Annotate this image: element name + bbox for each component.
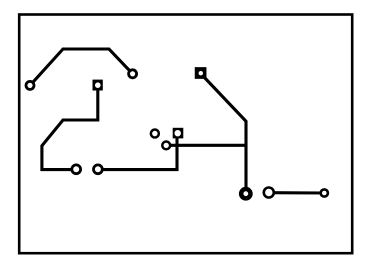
wire middle horizontal branch — [166, 144, 247, 147]
via free center — [151, 130, 159, 138]
wire bottom-right trace — [269, 191, 325, 194]
pad square top-right — [195, 67, 207, 79]
wire top-left trace — [30, 49, 133, 85]
wire bottom horizontal trace — [98, 133, 177, 170]
pad square middle — [173, 128, 184, 139]
wire left Z trace — [42, 85, 98, 170]
pad round bottom-right A — [264, 188, 274, 198]
pad square top-left — [93, 80, 103, 91]
pad round top-left — [26, 81, 34, 89]
via on branch — [162, 141, 170, 149]
pad round bottom-left A — [72, 165, 81, 174]
pad round bottom-right B — [321, 189, 328, 196]
pad round upper-middle — [129, 70, 137, 78]
pad round bottom-left B — [94, 165, 103, 174]
wire right diagonal trace — [204, 77, 247, 194]
pad filled bottom-center — [239, 187, 253, 201]
